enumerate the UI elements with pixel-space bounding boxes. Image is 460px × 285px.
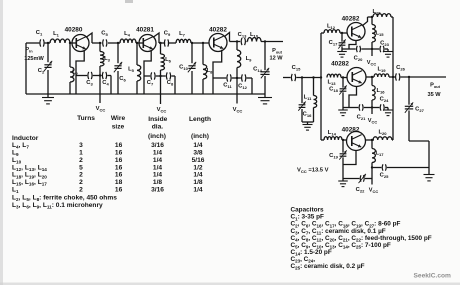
svg-text:C2: C2 xyxy=(38,68,45,75)
svg-text:16: 16 xyxy=(115,150,123,157)
svg-text:C23: C23 xyxy=(380,41,389,48)
svg-text:C25: ceramic disk, 0.2 µF: C25: ceramic disk, 0.2 µF xyxy=(291,263,365,271)
svg-text:Pout: Pout xyxy=(430,83,441,90)
svg-text:16: 16 xyxy=(115,157,123,164)
svg-text:5: 5 xyxy=(79,164,83,171)
svg-text:L13: L13 xyxy=(327,80,336,87)
svg-text:C24: C24 xyxy=(380,97,389,104)
svg-text:L12: L12 xyxy=(327,24,336,31)
svg-text:1: 1 xyxy=(79,150,83,157)
svg-text:C8: C8 xyxy=(167,80,174,87)
svg-text:16: 16 xyxy=(115,187,123,194)
svg-text:C26: C26 xyxy=(396,65,405,72)
svg-text:C7: C7 xyxy=(147,80,154,87)
svg-text:L19: L19 xyxy=(377,67,386,74)
svg-text:VCC =13.5 V: VCC =13.5 V xyxy=(297,168,329,175)
svg-text:2: 2 xyxy=(79,157,83,164)
svg-text:C25: C25 xyxy=(380,173,389,180)
svg-text:L5: L5 xyxy=(128,67,135,74)
svg-text:5/16: 5/16 xyxy=(192,157,205,164)
svg-text:Turns: Turns xyxy=(77,115,95,122)
svg-text:C11: C11 xyxy=(223,83,232,90)
svg-text:Length: Length xyxy=(189,116,211,123)
svg-text:1/4: 1/4 xyxy=(153,157,162,164)
svg-text:40282: 40282 xyxy=(331,61,349,68)
svg-text:size: size xyxy=(112,123,125,130)
svg-text:1/4: 1/4 xyxy=(193,187,202,194)
svg-text:L20: L20 xyxy=(378,130,387,137)
svg-text:L11: L11 xyxy=(304,95,313,102)
svg-text:VCC: VCC xyxy=(96,106,106,113)
svg-text:L8: L8 xyxy=(207,68,214,75)
svg-text:(inch): (inch) xyxy=(148,133,166,140)
svg-text:L18: L18 xyxy=(372,9,381,16)
svg-text:18: 18 xyxy=(115,179,123,186)
svg-text:L16: L16 xyxy=(376,88,385,95)
svg-text:C12: C12 xyxy=(238,84,247,91)
svg-text:VCC: VCC xyxy=(157,107,167,114)
svg-text:Inside: Inside xyxy=(148,116,167,123)
svg-text:1/4: 1/4 xyxy=(193,142,202,149)
svg-text:C5: C5 xyxy=(101,31,108,38)
svg-text:1/8: 1/8 xyxy=(153,179,162,186)
svg-text:C20: C20 xyxy=(354,56,363,63)
svg-text:C16: C16 xyxy=(303,112,312,119)
svg-text:40282: 40282 xyxy=(342,127,360,134)
svg-text:L3: L3 xyxy=(104,56,111,63)
svg-text:1/4: 1/4 xyxy=(153,164,162,171)
svg-text:1/4: 1/4 xyxy=(193,172,202,179)
svg-text:L6: L6 xyxy=(165,57,172,64)
svg-text:C3: C3 xyxy=(86,80,93,87)
svg-text:L4: L4 xyxy=(124,31,131,38)
svg-text:C4: C4 xyxy=(102,80,109,87)
svg-text:Capacitors: Capacitors xyxy=(291,207,324,214)
svg-text:Wire: Wire xyxy=(111,115,126,122)
svg-text:L9: L9 xyxy=(246,56,253,63)
svg-text:Inductor: Inductor xyxy=(12,135,39,142)
svg-text:16: 16 xyxy=(115,172,123,179)
svg-text:L14: L14 xyxy=(328,130,337,137)
svg-text:VCC: VCC xyxy=(369,188,379,195)
svg-text:L3, L6, L9, L11: 0.1 microhenr: L3, L6, L9, L11: 0.1 microhenry xyxy=(12,202,103,210)
svg-text:C17: C17 xyxy=(329,40,338,47)
svg-text:L10: L10 xyxy=(250,32,259,39)
svg-text:16: 16 xyxy=(115,164,123,171)
svg-text:35 W: 35 W xyxy=(427,92,441,98)
svg-text:C19: C19 xyxy=(329,153,338,160)
svg-text:1/4: 1/4 xyxy=(153,150,162,157)
svg-text:C15: C15 xyxy=(292,65,301,72)
svg-text:C27: C27 xyxy=(415,107,424,114)
svg-text:Pout: Pout xyxy=(272,48,283,55)
svg-text:1/2: 1/2 xyxy=(193,164,202,171)
svg-text:C14: C14 xyxy=(253,67,262,74)
svg-text:L7: L7 xyxy=(179,31,186,38)
svg-text:3/8: 3/8 xyxy=(193,150,202,157)
svg-text:SeekIC.com: SeekIC.com xyxy=(414,273,452,280)
svg-text:(inch): (inch) xyxy=(191,133,209,140)
svg-text:L15: L15 xyxy=(375,31,384,38)
svg-text:2: 2 xyxy=(79,179,83,186)
svg-text:2: 2 xyxy=(79,172,83,179)
svg-text:40280: 40280 xyxy=(65,27,83,34)
svg-text:3: 3 xyxy=(79,142,83,149)
svg-text:2: 2 xyxy=(79,187,83,194)
svg-text:125mW: 125mW xyxy=(24,56,44,62)
svg-text:C22: C22 xyxy=(356,187,365,194)
svg-text:40281: 40281 xyxy=(136,27,154,34)
svg-text:40282: 40282 xyxy=(209,27,227,34)
svg-text:1/4: 1/4 xyxy=(153,172,162,179)
svg-text:16: 16 xyxy=(115,142,123,149)
svg-text:C13: C13 xyxy=(238,32,247,39)
svg-text:VCC: VCC xyxy=(368,118,378,125)
svg-text:3/16: 3/16 xyxy=(151,142,164,149)
svg-text:C9: C9 xyxy=(164,31,171,38)
svg-text:1/8: 1/8 xyxy=(193,179,202,186)
svg-text:C1: C1 xyxy=(36,30,43,37)
svg-text:40282: 40282 xyxy=(342,16,360,23)
svg-text:3/16: 3/16 xyxy=(151,187,164,194)
svg-text:L17: L17 xyxy=(375,151,384,158)
svg-text:dia.: dia. xyxy=(152,124,164,131)
svg-text:C10: C10 xyxy=(179,65,188,72)
svg-text:12 W: 12 W xyxy=(269,56,283,62)
svg-text:C18: C18 xyxy=(329,87,338,94)
svg-text:L1: L1 xyxy=(53,31,60,38)
svg-text:VCC: VCC xyxy=(233,107,243,114)
svg-text:C21: C21 xyxy=(357,115,366,122)
svg-text:VCC: VCC xyxy=(367,60,377,67)
svg-text:C6: C6 xyxy=(119,76,126,83)
